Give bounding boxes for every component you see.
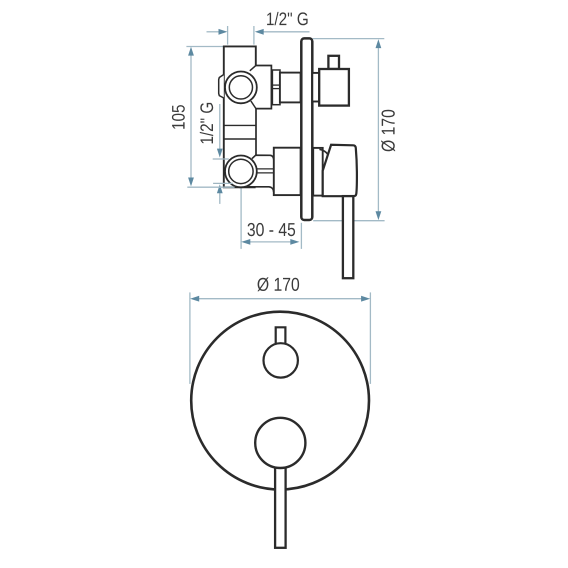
stem lines to cartridge bbox=[250, 168, 274, 170]
dim extension line: dia170 side top bbox=[313, 38, 385, 40]
front plate circle bbox=[191, 312, 369, 490]
dim line: 30-45 with outward arrows bbox=[247, 241, 294, 243]
dim extension line: dia170 front right bbox=[369, 292, 371, 384]
mixer knob (front, large circle) bbox=[255, 418, 305, 468]
dim extension line: dia170 side bottom bbox=[313, 220, 384, 222]
dim line: dia170 front with outward arrows bbox=[197, 298, 363, 300]
dim text 30 - 45 bbox=[248, 223, 296, 236]
dim line: top 1/2G right segment with arrow bbox=[263, 31, 309, 33]
dim text 1/2 G rotated bbox=[200, 103, 213, 144]
tick line: lower port bottom bbox=[213, 182, 233, 184]
wall plate bbox=[301, 38, 312, 220]
lower cartridge bbox=[274, 148, 301, 195]
lower boss top edge with rounded corner bbox=[252, 155, 274, 169]
dim line: 105 vertical with arrows bbox=[190, 54, 192, 179]
dim extension line: top 1/2G left bbox=[227, 26, 229, 45]
valve body column outline bbox=[224, 46, 256, 187]
diverter knob connector bbox=[312, 73, 319, 102]
dim extension line: dia170 front left bbox=[189, 292, 191, 384]
dim stem: 1/2G vertical lower with up arrow bbox=[219, 193, 221, 204]
dim text 105 rotated bbox=[172, 105, 185, 129]
body band line upper bbox=[224, 124, 256, 126]
upper cartridge C bbox=[280, 73, 301, 103]
lever rod (front) bbox=[275, 462, 286, 548]
collar-lever arc bbox=[319, 149, 327, 154]
diverter knob (front, small circle) bbox=[264, 343, 298, 377]
dim text 1/2 G top bbox=[267, 12, 308, 25]
valve body column fill bbox=[224, 46, 256, 187]
dim extension line: 30-45 left bbox=[240, 189, 242, 249]
lever rod (side) bbox=[343, 196, 353, 278]
diverter knob body bbox=[319, 69, 349, 106]
dim extension line: 105 bottom (long, over body) bbox=[187, 186, 234, 188]
upper boss diagonal top bbox=[250, 66, 256, 71]
lower outlet port (ring) bbox=[225, 156, 257, 188]
lever body bbox=[323, 145, 357, 196]
body band line lower bbox=[224, 138, 256, 140]
lever collar bbox=[313, 148, 323, 196]
valve body right edge middle segment bbox=[255, 109, 257, 155]
upper stub B (threaded section) bbox=[272, 70, 280, 105]
upper stub A bbox=[256, 66, 272, 109]
upper inlet port (ring) bbox=[225, 72, 257, 104]
dim text dia 170 rotated bbox=[381, 110, 395, 152]
diverter stub (front) bbox=[276, 327, 286, 344]
dim text dia 170 front bbox=[257, 277, 299, 291]
lower boss bottom edge with fillet bbox=[246, 187, 274, 192]
dim extension line: 105 top bbox=[186, 46, 223, 48]
dim extension line: top 1/2G right bbox=[253, 26, 255, 45]
dim line: top 1/2G left segment with arrow bbox=[207, 31, 220, 33]
dim line: dia170 side vertical with arrows bbox=[377, 46, 379, 213]
tick line: lower port top bbox=[213, 158, 229, 160]
left tab lug bbox=[219, 75, 224, 99]
dim extension line: 30-45 right bbox=[300, 223, 302, 249]
upper boss diagonal bottom bbox=[251, 101, 256, 109]
diverter knob stub bbox=[328, 56, 339, 69]
dim stem: 1/2G vertical upper with down arrow bbox=[219, 104, 221, 150]
